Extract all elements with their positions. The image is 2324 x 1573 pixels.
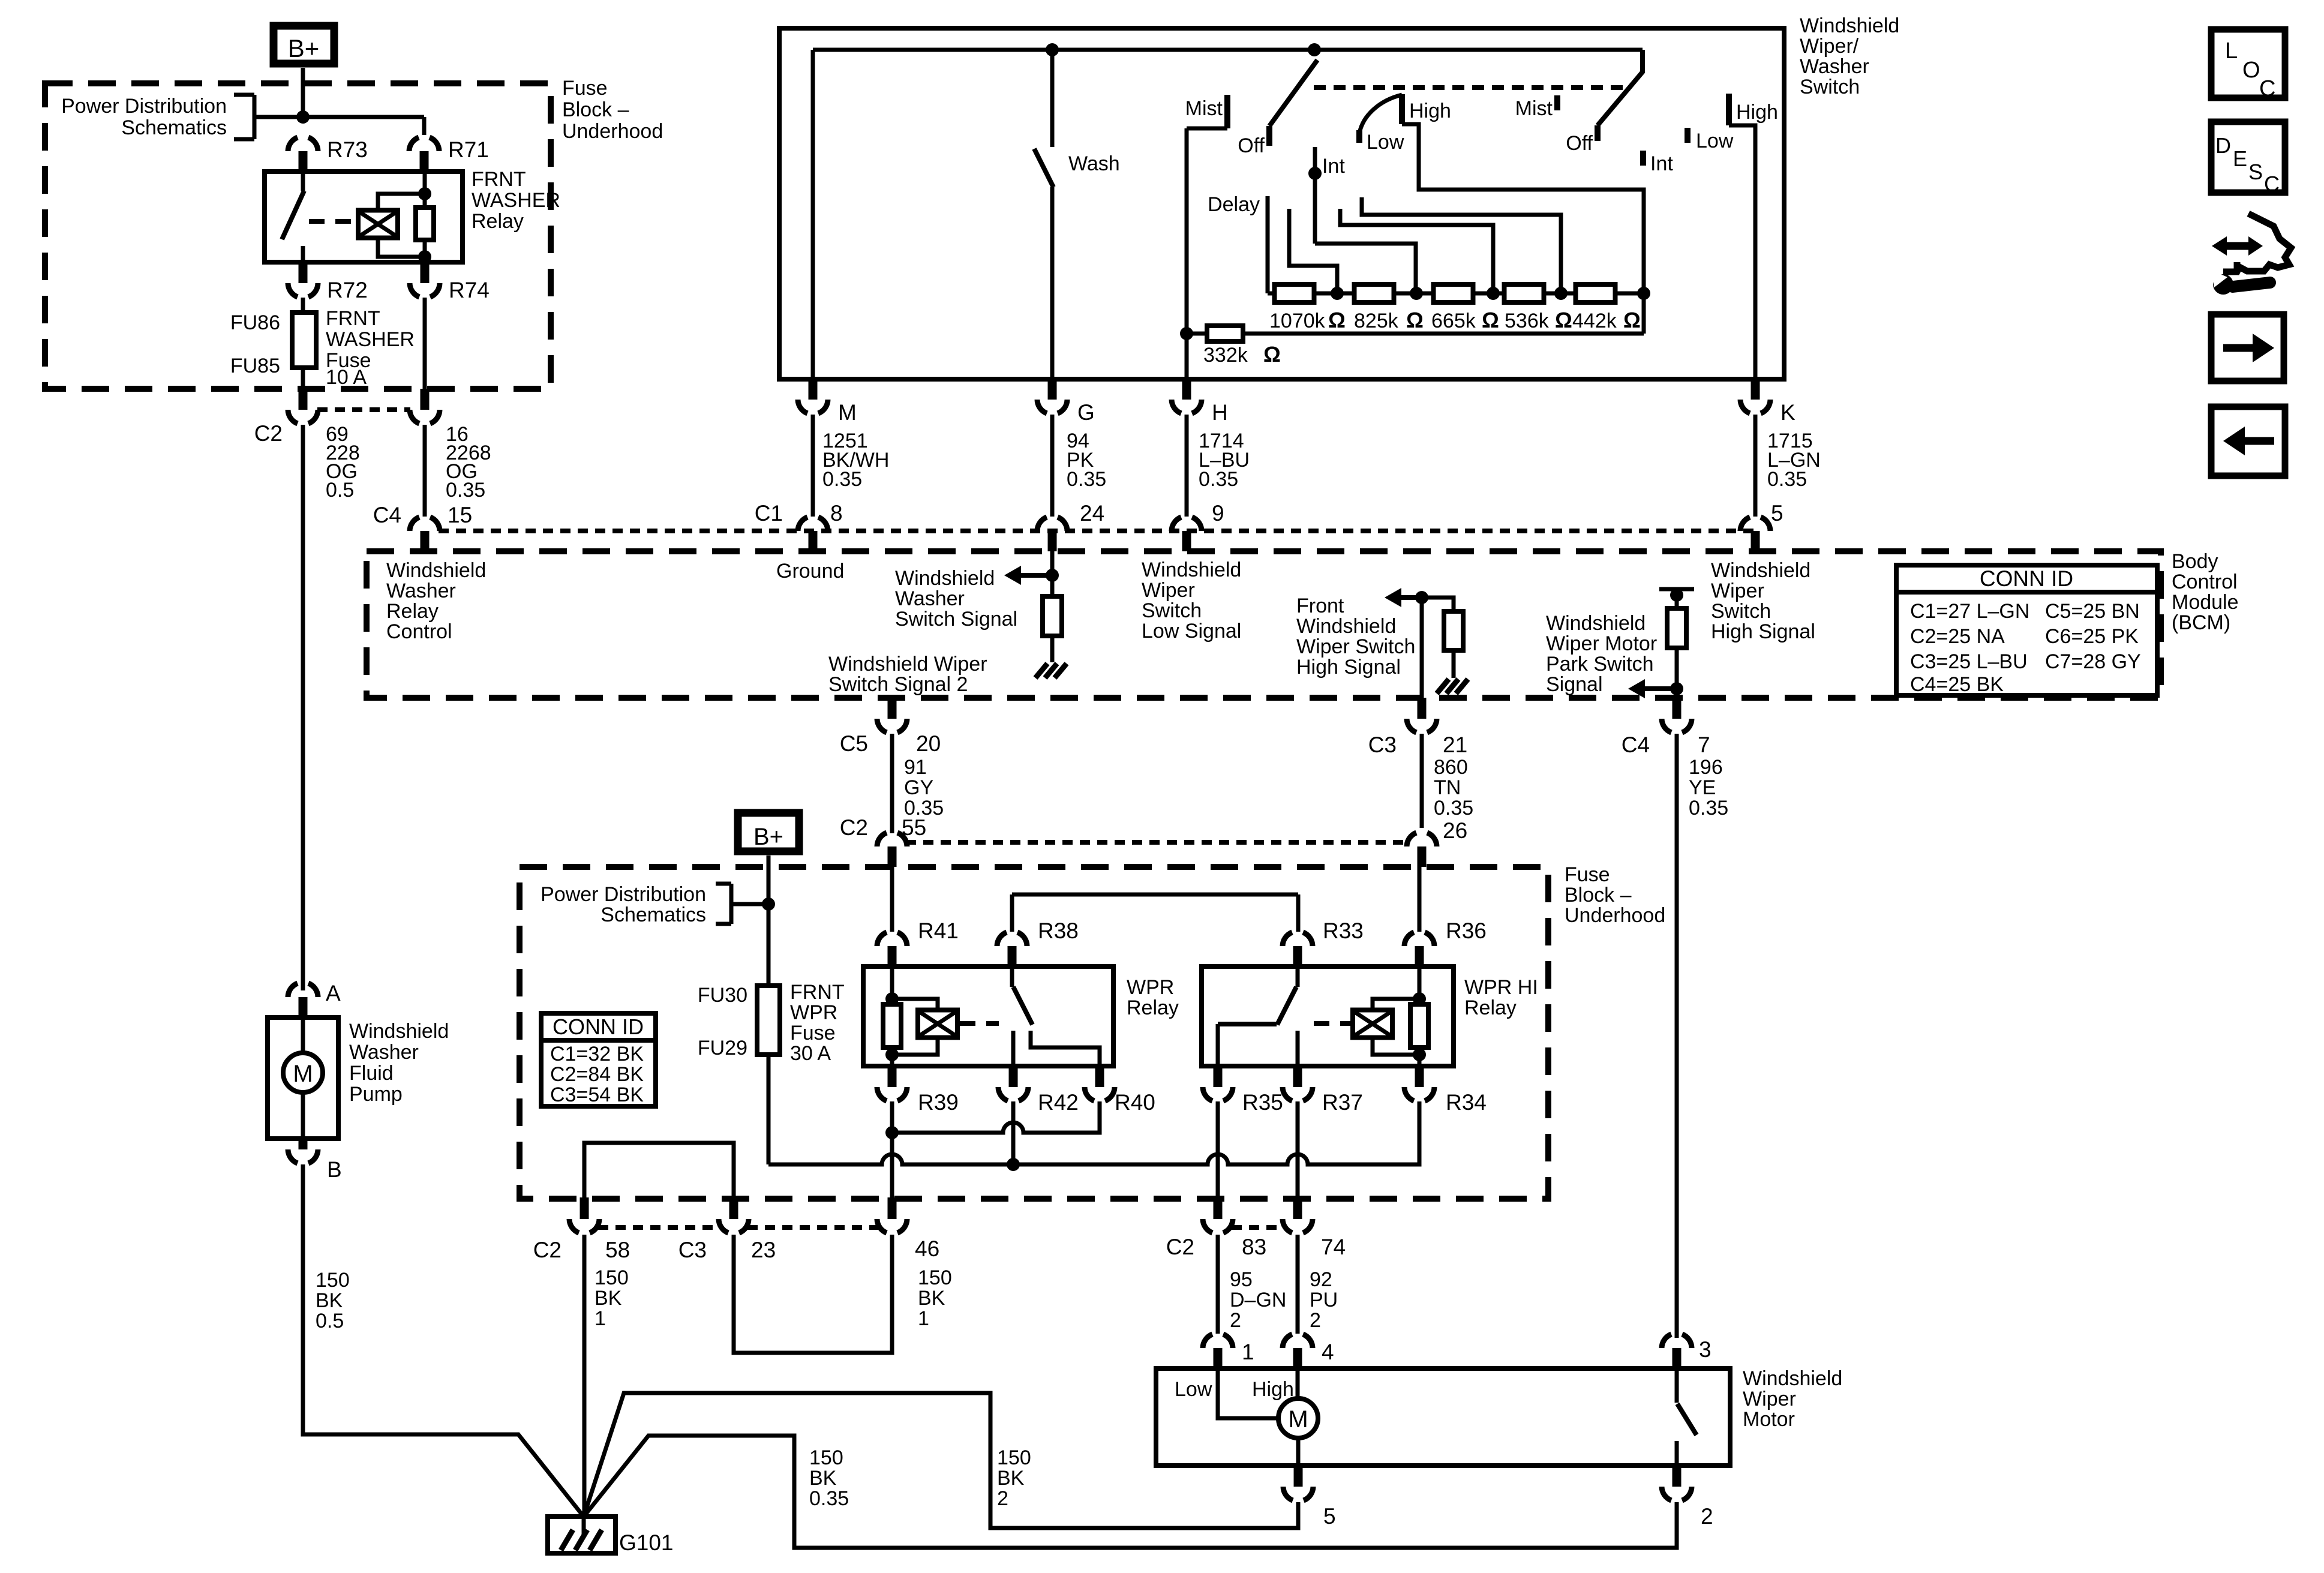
svg-text:Ω: Ω bbox=[1263, 342, 1281, 367]
svg-text:55: 55 bbox=[902, 815, 926, 840]
svg-text:C1=27 L–GN: C1=27 L–GN bbox=[1910, 600, 2029, 623]
svg-text:WPR HI: WPR HI bbox=[1464, 976, 1538, 999]
svg-text:Block –: Block – bbox=[1565, 884, 1632, 906]
svg-text:Washer: Washer bbox=[1800, 55, 1869, 78]
svg-text:Wiper: Wiper bbox=[1142, 579, 1195, 602]
svg-text:665k: 665k bbox=[1431, 310, 1476, 332]
svg-text:M: M bbox=[293, 1061, 313, 1087]
svg-text:Wiper Switch: Wiper Switch bbox=[1296, 635, 1415, 658]
svg-text:High: High bbox=[1736, 101, 1778, 124]
svg-text:Ω: Ω bbox=[1328, 308, 1346, 332]
svg-text:Ω: Ω bbox=[1555, 308, 1572, 332]
svg-text:High: High bbox=[1409, 100, 1451, 122]
svg-text:D–GN: D–GN bbox=[1230, 1289, 1286, 1311]
svg-text:R39: R39 bbox=[918, 1090, 959, 1115]
svg-text:Off: Off bbox=[1566, 132, 1593, 155]
svg-text:C3=54 BK: C3=54 BK bbox=[550, 1083, 644, 1106]
svg-text:Washer: Washer bbox=[349, 1041, 419, 1064]
svg-text:CONN ID: CONN ID bbox=[1980, 566, 2073, 591]
svg-text:Fuse: Fuse bbox=[790, 1022, 836, 1044]
svg-text:150: 150 bbox=[918, 1266, 952, 1289]
svg-text:1: 1 bbox=[594, 1307, 606, 1330]
svg-text:150: 150 bbox=[997, 1446, 1031, 1469]
svg-text:E: E bbox=[2233, 146, 2247, 171]
svg-text:C3=25 L–BU: C3=25 L–BU bbox=[1910, 650, 2028, 673]
svg-text:Body: Body bbox=[2172, 550, 2218, 573]
svg-text:150: 150 bbox=[316, 1269, 350, 1292]
svg-text:O: O bbox=[2242, 58, 2260, 83]
svg-text:High: High bbox=[1252, 1378, 1294, 1401]
svg-text:5: 5 bbox=[1771, 501, 1783, 526]
svg-text:High Signal: High Signal bbox=[1711, 620, 1815, 643]
svg-text:2: 2 bbox=[1701, 1504, 1713, 1529]
svg-text:Motor: Motor bbox=[1743, 1408, 1795, 1431]
svg-text:536k: 536k bbox=[1505, 310, 1550, 332]
svg-text:332k: 332k bbox=[1203, 344, 1248, 367]
svg-text:C5=25 BN: C5=25 BN bbox=[2045, 600, 2140, 623]
svg-text:Windshield: Windshield bbox=[1743, 1367, 1842, 1390]
svg-text:Windshield: Windshield bbox=[1296, 615, 1396, 638]
svg-text:WPR: WPR bbox=[1127, 976, 1174, 999]
svg-text:Pump: Pump bbox=[349, 1083, 403, 1106]
svg-text:Ω: Ω bbox=[1482, 308, 1499, 332]
svg-text:Power Distribution: Power Distribution bbox=[61, 95, 227, 118]
svg-text:R42: R42 bbox=[1038, 1090, 1079, 1115]
svg-text:FU29: FU29 bbox=[698, 1037, 747, 1059]
svg-text:Ground: Ground bbox=[776, 560, 844, 583]
svg-text:0.35: 0.35 bbox=[1689, 797, 1728, 819]
svg-text:R35: R35 bbox=[1242, 1090, 1283, 1115]
svg-text:R37: R37 bbox=[1322, 1090, 1363, 1115]
svg-text:2: 2 bbox=[1310, 1309, 1321, 1332]
svg-text:7: 7 bbox=[1698, 733, 1710, 757]
svg-text:15: 15 bbox=[448, 503, 472, 527]
svg-text:BK: BK bbox=[316, 1289, 343, 1312]
svg-text:Wash: Wash bbox=[1068, 152, 1120, 175]
svg-text:Control: Control bbox=[386, 620, 452, 643]
svg-text:Off: Off bbox=[1238, 134, 1265, 157]
svg-text:0.35: 0.35 bbox=[822, 468, 862, 491]
svg-text:BK: BK bbox=[918, 1287, 945, 1310]
svg-text:Low: Low bbox=[1175, 1378, 1212, 1401]
svg-text:BK: BK bbox=[809, 1467, 837, 1490]
svg-text:FU86: FU86 bbox=[230, 311, 280, 334]
svg-text:Windshield: Windshield bbox=[349, 1020, 449, 1043]
svg-text:150: 150 bbox=[809, 1446, 843, 1469]
svg-text:5: 5 bbox=[1323, 1504, 1336, 1529]
svg-text:1: 1 bbox=[1242, 1340, 1254, 1364]
svg-text:B: B bbox=[327, 1157, 342, 1182]
svg-text:C2: C2 bbox=[254, 421, 283, 446]
svg-text:FU30: FU30 bbox=[698, 984, 747, 1007]
svg-text:BK: BK bbox=[594, 1287, 622, 1310]
svg-text:Switch: Switch bbox=[1711, 600, 1771, 623]
svg-text:Low Signal: Low Signal bbox=[1142, 620, 1241, 643]
svg-text:C4: C4 bbox=[373, 503, 401, 527]
svg-text:C2: C2 bbox=[1166, 1235, 1194, 1259]
svg-text:0.35: 0.35 bbox=[446, 479, 485, 502]
svg-text:CONN ID: CONN ID bbox=[553, 1014, 644, 1039]
svg-text:0.5: 0.5 bbox=[326, 479, 354, 502]
svg-text:R74: R74 bbox=[449, 278, 490, 302]
svg-text:Signal: Signal bbox=[1546, 673, 1603, 696]
svg-text:BK: BK bbox=[997, 1467, 1025, 1490]
svg-text:21: 21 bbox=[1443, 733, 1467, 757]
svg-text:Int: Int bbox=[1650, 152, 1673, 175]
svg-text:0.5: 0.5 bbox=[316, 1310, 344, 1332]
svg-text:Underhood: Underhood bbox=[562, 120, 663, 143]
svg-text:C3: C3 bbox=[678, 1238, 707, 1262]
svg-text:Fuse: Fuse bbox=[562, 77, 608, 100]
svg-text:Windshield: Windshield bbox=[1800, 14, 1899, 37]
svg-text:Washer: Washer bbox=[895, 587, 965, 610]
svg-text:Fluid: Fluid bbox=[349, 1062, 394, 1085]
svg-text:WPR: WPR bbox=[790, 1001, 837, 1024]
svg-text:WASHER: WASHER bbox=[472, 189, 560, 212]
svg-text:D: D bbox=[2215, 133, 2231, 158]
svg-text:A: A bbox=[326, 981, 341, 1005]
svg-text:Low: Low bbox=[1367, 131, 1404, 154]
svg-text:Ω: Ω bbox=[1623, 308, 1641, 332]
svg-text:Switch: Switch bbox=[1800, 76, 1860, 98]
svg-text:S: S bbox=[2248, 160, 2263, 184]
svg-text:Relay: Relay bbox=[1464, 996, 1517, 1019]
svg-text:C7=28 GY: C7=28 GY bbox=[2045, 650, 2141, 673]
svg-text:R73: R73 bbox=[327, 137, 368, 162]
svg-text:Switch Signal: Switch Signal bbox=[895, 608, 1017, 631]
svg-text:C3: C3 bbox=[1368, 733, 1397, 757]
svg-text:Windshield: Windshield bbox=[895, 567, 995, 590]
svg-text:Low: Low bbox=[1696, 130, 1734, 152]
svg-text:0.35: 0.35 bbox=[1067, 468, 1106, 491]
svg-text:FRNT: FRNT bbox=[472, 168, 526, 191]
svg-text:FRNT: FRNT bbox=[326, 307, 380, 330]
svg-text:Underhood: Underhood bbox=[1565, 904, 1665, 927]
svg-text:Wiper/: Wiper/ bbox=[1800, 35, 1859, 58]
svg-text:Wiper: Wiper bbox=[1711, 580, 1764, 602]
svg-text:Windshield Wiper: Windshield Wiper bbox=[828, 653, 987, 676]
svg-text:Module: Module bbox=[2172, 591, 2239, 614]
svg-text:R34: R34 bbox=[1446, 1090, 1487, 1115]
svg-text:GY: GY bbox=[904, 776, 933, 799]
svg-text:2: 2 bbox=[997, 1487, 1008, 1510]
svg-text:C2: C2 bbox=[840, 815, 868, 840]
svg-text:20: 20 bbox=[916, 731, 941, 756]
svg-text:3: 3 bbox=[1699, 1337, 1712, 1362]
svg-text:Switch: Switch bbox=[1142, 599, 1202, 622]
svg-text:Power Distribution: Power Distribution bbox=[541, 883, 706, 906]
svg-text:Relay: Relay bbox=[386, 600, 439, 623]
svg-text:Park Switch: Park Switch bbox=[1546, 653, 1654, 676]
svg-text:196: 196 bbox=[1689, 756, 1723, 779]
svg-text:Schematics: Schematics bbox=[600, 903, 706, 926]
svg-text:R41: R41 bbox=[918, 918, 959, 943]
svg-text:0.35: 0.35 bbox=[1767, 468, 1807, 491]
svg-text:Mist: Mist bbox=[1185, 97, 1223, 120]
svg-text:Wiper: Wiper bbox=[1743, 1388, 1796, 1410]
svg-text:R71: R71 bbox=[448, 137, 489, 162]
svg-text:Block –: Block – bbox=[562, 98, 629, 121]
svg-text:B+: B+ bbox=[753, 824, 783, 850]
svg-text:Ω: Ω bbox=[1406, 308, 1424, 332]
svg-text:825k: 825k bbox=[1354, 310, 1399, 332]
svg-text:74: 74 bbox=[1321, 1235, 1346, 1259]
svg-text:B+: B+ bbox=[288, 34, 320, 62]
svg-text:M: M bbox=[838, 400, 857, 425]
svg-text:Windshield: Windshield bbox=[1711, 559, 1810, 582]
svg-text:1070k: 1070k bbox=[1269, 310, 1326, 332]
svg-text:30 A: 30 A bbox=[790, 1042, 831, 1065]
svg-text:Switch Signal 2: Switch Signal 2 bbox=[828, 673, 968, 696]
svg-text:G: G bbox=[1077, 400, 1095, 425]
svg-text:860: 860 bbox=[1434, 756, 1468, 779]
svg-text:91: 91 bbox=[904, 756, 927, 779]
svg-text:C1=32 BK: C1=32 BK bbox=[550, 1043, 644, 1065]
svg-text:4: 4 bbox=[1322, 1340, 1334, 1364]
svg-text:C: C bbox=[2264, 172, 2280, 196]
svg-text:C2=25 NA: C2=25 NA bbox=[1910, 625, 2005, 648]
svg-text:C4: C4 bbox=[1622, 733, 1650, 757]
svg-text:9: 9 bbox=[1212, 501, 1224, 526]
svg-text:442k: 442k bbox=[1572, 310, 1617, 332]
svg-text:95: 95 bbox=[1230, 1268, 1253, 1291]
svg-text:C4=25 BK: C4=25 BK bbox=[1910, 673, 2004, 696]
svg-text:83: 83 bbox=[1242, 1235, 1266, 1259]
svg-text:150: 150 bbox=[594, 1266, 629, 1289]
svg-text:Washer: Washer bbox=[386, 580, 456, 602]
svg-text:Front: Front bbox=[1296, 595, 1344, 617]
svg-text:High Signal: High Signal bbox=[1296, 656, 1401, 679]
svg-text:FU85: FU85 bbox=[230, 355, 280, 377]
svg-text:C: C bbox=[2259, 76, 2275, 101]
svg-text:PU: PU bbox=[1310, 1289, 1338, 1311]
svg-text:Int: Int bbox=[1322, 155, 1345, 178]
svg-text:TN: TN bbox=[1434, 776, 1461, 799]
svg-text:L: L bbox=[2225, 38, 2238, 64]
svg-text:Wiper Motor: Wiper Motor bbox=[1546, 632, 1657, 655]
svg-text:C2: C2 bbox=[533, 1238, 562, 1262]
svg-text:2: 2 bbox=[1230, 1309, 1241, 1332]
svg-text:Windshield: Windshield bbox=[386, 559, 486, 582]
svg-text:C5: C5 bbox=[840, 731, 868, 756]
svg-text:92: 92 bbox=[1310, 1268, 1332, 1291]
svg-text:Fuse: Fuse bbox=[1565, 863, 1610, 886]
svg-text:0.35: 0.35 bbox=[809, 1487, 849, 1510]
svg-text:0.35: 0.35 bbox=[1199, 468, 1238, 491]
svg-text:Relay: Relay bbox=[472, 210, 524, 233]
svg-text:M: M bbox=[1288, 1406, 1308, 1433]
svg-text:10 A: 10 A bbox=[326, 366, 367, 389]
svg-text:FRNT: FRNT bbox=[790, 981, 845, 1004]
svg-text:YE: YE bbox=[1689, 776, 1716, 799]
svg-text:Control: Control bbox=[2172, 571, 2238, 593]
svg-text:(BCM): (BCM) bbox=[2172, 611, 2230, 634]
svg-text:26: 26 bbox=[1443, 818, 1467, 843]
svg-text:H: H bbox=[1212, 400, 1228, 425]
svg-text:Schematics: Schematics bbox=[121, 116, 227, 139]
svg-text:24: 24 bbox=[1080, 501, 1104, 526]
svg-text:C1: C1 bbox=[755, 501, 783, 526]
svg-text:Mist: Mist bbox=[1515, 97, 1553, 120]
svg-text:58: 58 bbox=[605, 1238, 630, 1262]
svg-text:C6=25 PK: C6=25 PK bbox=[2045, 625, 2139, 648]
svg-text:Windshield: Windshield bbox=[1546, 612, 1646, 635]
svg-text:R33: R33 bbox=[1323, 918, 1364, 943]
svg-text:1: 1 bbox=[918, 1307, 929, 1330]
svg-text:Relay: Relay bbox=[1127, 996, 1179, 1019]
svg-text:23: 23 bbox=[751, 1238, 776, 1262]
svg-text:Delay: Delay bbox=[1208, 193, 1260, 216]
svg-text:R38: R38 bbox=[1038, 918, 1079, 943]
svg-text:WASHER: WASHER bbox=[326, 328, 415, 351]
svg-text:R36: R36 bbox=[1446, 918, 1487, 943]
svg-text:0.35: 0.35 bbox=[1434, 797, 1473, 819]
svg-text:R72: R72 bbox=[327, 278, 368, 302]
svg-text:G101: G101 bbox=[619, 1530, 674, 1555]
svg-text:46: 46 bbox=[915, 1236, 939, 1261]
svg-text:Windshield: Windshield bbox=[1142, 559, 1241, 581]
svg-text:K: K bbox=[1780, 400, 1795, 425]
svg-text:R40: R40 bbox=[1115, 1090, 1155, 1115]
svg-text:C2=84 BK: C2=84 BK bbox=[550, 1063, 644, 1086]
svg-text:8: 8 bbox=[830, 501, 843, 526]
